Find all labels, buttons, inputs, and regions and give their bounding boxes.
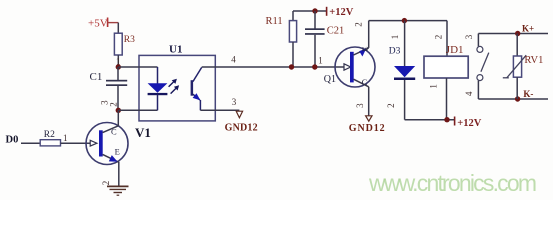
node C21 bottom junction dot bbox=[312, 64, 317, 69]
svg-text:R2: R2 bbox=[44, 130, 55, 140]
wire top rail Q1 to JD1 bbox=[369, 20, 447, 22]
svg-text:3: 3 bbox=[355, 103, 365, 108]
light arrow 2 bbox=[171, 85, 180, 93]
svg-text:Q1: Q1 bbox=[324, 74, 336, 85]
svg-text:+12V: +12V bbox=[329, 7, 353, 18]
transistor Q1 bbox=[324, 46, 375, 87]
wire Q1 emitter up bbox=[368, 21, 370, 48]
wire R3 to node1 bbox=[117, 55, 119, 67]
power port GND12 (Q1) bbox=[349, 116, 386, 134]
svg-text:JD1: JD1 bbox=[446, 44, 464, 56]
diode D3 bbox=[389, 21, 415, 120]
node B junction dot bbox=[116, 108, 121, 113]
svg-text:RV1: RV1 bbox=[524, 55, 543, 66]
svg-text:R3: R3 bbox=[124, 35, 135, 45]
wire R2 to V1 base bbox=[61, 142, 91, 144]
node A junction dot bbox=[116, 64, 121, 69]
svg-text:2: 2 bbox=[108, 102, 118, 107]
svg-text:V1: V1 bbox=[135, 125, 151, 140]
svg-text:+12V: +12V bbox=[457, 118, 481, 129]
wire +5V down to R3 bbox=[117, 23, 119, 34]
resistor R2 bbox=[40, 130, 60, 146]
relay coil JD1 bbox=[424, 21, 468, 120]
svg-text:1: 1 bbox=[63, 133, 68, 143]
node D3 top junction dot bbox=[402, 18, 407, 23]
svg-text:2: 2 bbox=[101, 181, 111, 186]
wire D0 to R2 bbox=[21, 142, 40, 144]
light arrow 1 bbox=[169, 79, 177, 87]
svg-text:3: 3 bbox=[464, 34, 474, 39]
wire V1 collector to node B bbox=[117, 110, 119, 126]
svg-text:2: 2 bbox=[386, 103, 396, 108]
svg-text:C: C bbox=[362, 77, 368, 87]
node RV1 top junction dot bbox=[515, 31, 520, 36]
ground (earth) bbox=[107, 186, 129, 195]
svg-text:2: 2 bbox=[434, 35, 444, 40]
svg-text:4: 4 bbox=[464, 91, 474, 96]
svg-text:2: 2 bbox=[353, 22, 363, 27]
wire node1 to LED anode bbox=[118, 66, 157, 68]
svg-text:www.cntronics.com: www.cntronics.com bbox=[368, 170, 536, 196]
optocoupler U1 box bbox=[139, 43, 215, 121]
power port +12V (bottom) bbox=[455, 117, 482, 129]
node RV1 bottom junction dot bbox=[515, 96, 520, 101]
svg-text:U1: U1 bbox=[169, 43, 182, 55]
svg-text:K+: K+ bbox=[522, 24, 534, 34]
wire K+ rail bbox=[478, 33, 548, 35]
transistor V1 bbox=[86, 123, 151, 165]
svg-text:C: C bbox=[111, 126, 117, 136]
wire U1 pin4 to Q1 base bbox=[202, 66, 344, 68]
capacitor C21 bbox=[305, 11, 344, 67]
resistor R11 bbox=[266, 11, 297, 67]
svg-text:4: 4 bbox=[231, 55, 236, 65]
wire V1 emitter down bbox=[118, 162, 120, 187]
power port GND12 (U1) bbox=[225, 111, 258, 133]
svg-text:GND12: GND12 bbox=[349, 123, 386, 134]
wire U1 pin3 to GND12 bbox=[200, 109, 239, 111]
phototransistor of U1 bbox=[191, 67, 202, 110]
svg-text:C21: C21 bbox=[327, 25, 345, 36]
wire bottom +12V bbox=[405, 119, 454, 121]
varistor RV1 bbox=[503, 34, 544, 100]
power port +5V bbox=[88, 17, 118, 29]
node R11 junction dot bbox=[289, 64, 294, 69]
power port +12V (top) bbox=[327, 7, 354, 18]
wire Q1 collector down bbox=[368, 87, 370, 116]
svg-text:D3: D3 bbox=[389, 47, 401, 57]
svg-text:GND12: GND12 bbox=[225, 123, 258, 134]
svg-text:R11: R11 bbox=[266, 16, 283, 27]
svg-text:D0: D0 bbox=[6, 134, 19, 145]
relay contact switch bbox=[477, 34, 489, 100]
wire K- rail bbox=[478, 98, 548, 100]
svg-text:1: 1 bbox=[428, 84, 438, 89]
node JD1 bottom junction dot bbox=[444, 117, 449, 122]
svg-text:K-: K- bbox=[523, 89, 533, 99]
svg-text:3: 3 bbox=[232, 97, 237, 107]
svg-text:1: 1 bbox=[390, 35, 400, 40]
wire +12V rail top bbox=[293, 10, 327, 12]
capacitor C1 bbox=[90, 67, 128, 110]
LED inside U1 bbox=[148, 67, 168, 110]
node C21 top junction dot bbox=[312, 8, 317, 13]
svg-text:+5V: +5V bbox=[88, 17, 108, 29]
svg-text:C1: C1 bbox=[90, 71, 103, 83]
wire node2 to LED cathode bbox=[118, 109, 157, 111]
svg-text:1: 1 bbox=[318, 55, 323, 65]
svg-text:E: E bbox=[115, 147, 120, 157]
resistor R3 bbox=[114, 33, 135, 55]
